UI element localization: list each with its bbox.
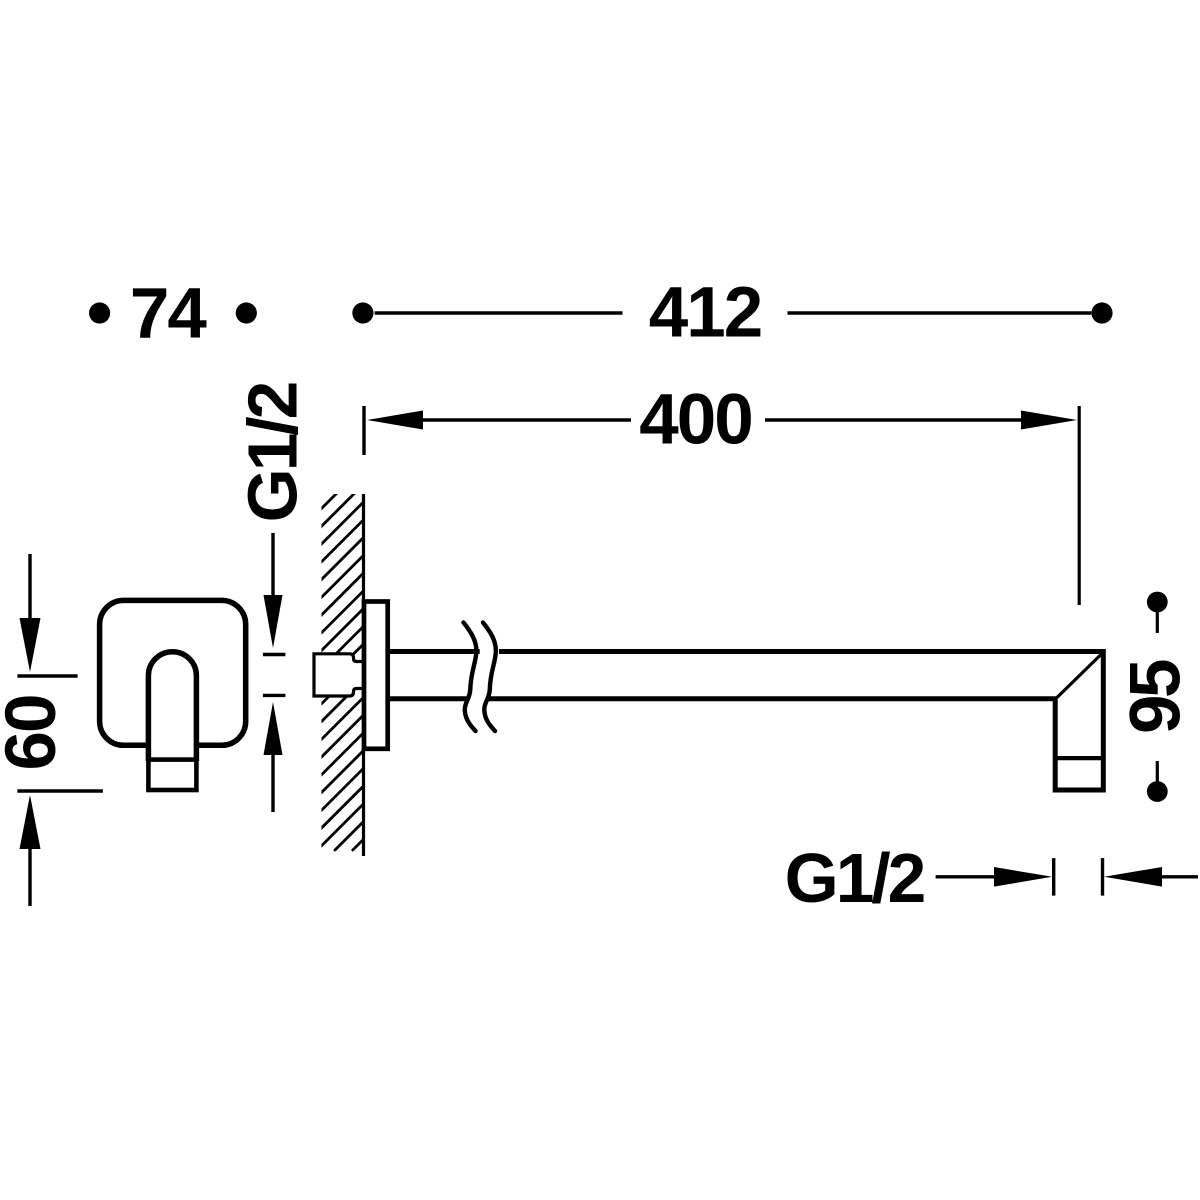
svg-text:74: 74 [130, 275, 207, 354]
svg-text:412: 412 [649, 274, 761, 353]
svg-text:G1/2: G1/2 [785, 839, 924, 917]
svg-text:60: 60 [0, 696, 71, 771]
svg-text:G1/2: G1/2 [234, 383, 312, 522]
svg-text:400: 400 [639, 381, 751, 460]
svg-text:95: 95 [1117, 660, 1196, 734]
